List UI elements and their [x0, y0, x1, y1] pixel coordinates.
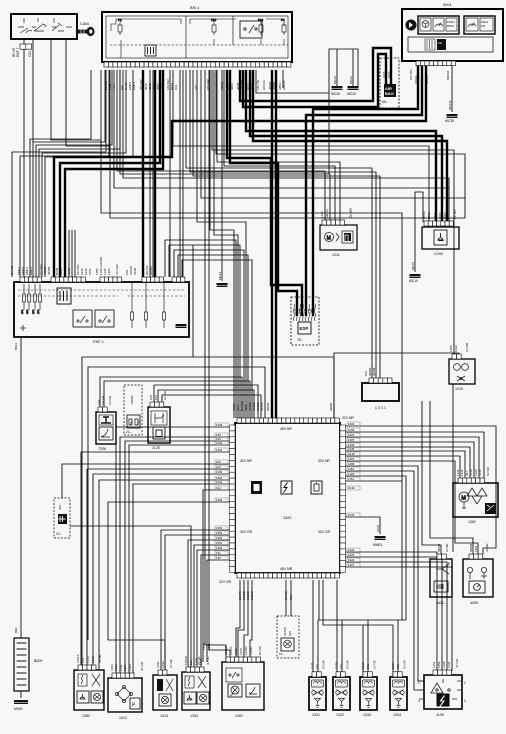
svg-text:4005: 4005 — [470, 601, 478, 605]
svg-text:1262: 1262 — [468, 520, 476, 524]
wire 1215 return vertical — [452, 384, 454, 552]
wire ECU right 1257 to 4005 — [340, 461, 478, 554]
wire 1120 to ECU c — [162, 395, 261, 418]
svg-text:30050: 30050 — [329, 402, 333, 411]
svg-text:21--: 21-- — [126, 430, 132, 434]
svg-text:312B: 312B — [133, 268, 137, 275]
svg-text:1229: 1229 — [216, 423, 223, 427]
wire BSI to PSF1 thick elbow 2 — [65, 70, 163, 278]
svg-text:124: 124 — [216, 465, 221, 469]
wire ECU bottom to 1261 a — [236, 580, 240, 662]
wire ECU bottom to 15A68 a — [285, 580, 287, 616]
svg-text:2V NE: 2V NE — [169, 659, 173, 668]
svg-text:3014: 3014 — [250, 83, 254, 90]
svg-text:65--: 65-- — [382, 100, 388, 104]
injector 1332 — [333, 677, 350, 710]
instrument cluster 0004 box — [402, 9, 503, 61]
svg-text:EMF4: EMF4 — [132, 82, 136, 90]
wire BSI to CV00 thick 1 — [246, 70, 436, 222]
wire 7306 to ECU a — [100, 377, 242, 418]
svg-text:1353: 1353 — [190, 714, 198, 718]
cluster lower module — [408, 37, 493, 52]
wire BSI staircase to PSF1 d — [42, 70, 126, 277]
wire ECU right H129 — [340, 456, 460, 482]
wire BSI pin down x197 — [197, 70, 246, 418]
svg-text:151: 151 — [315, 664, 319, 669]
wire CV00 to MC10 ground — [415, 192, 423, 272]
svg-text:MC311: MC311 — [448, 100, 452, 110]
svg-text:2V NR: 2V NR — [346, 659, 350, 669]
svg-text:1355: 1355 — [216, 531, 223, 535]
svg-text:6V NR: 6V NR — [486, 466, 490, 476]
wire BSI to fuel gauge 1211 b — [120, 70, 330, 220]
svg-text:1351A: 1351A — [76, 654, 80, 663]
svg-text:1212: 1212 — [334, 662, 338, 669]
wire MC30 drop — [336, 49, 338, 86]
svg-text:1313: 1313 — [160, 714, 168, 718]
svg-text:48V NR: 48V NR — [280, 427, 292, 431]
svg-text:4621: 4621 — [436, 601, 444, 605]
svg-text:2: 2 — [464, 681, 466, 685]
svg-text:1204: 1204 — [216, 448, 223, 452]
wire ECU left 1354 — [188, 540, 233, 672]
svg-text:1316C: 1316C — [244, 645, 248, 655]
svg-text:1120: 1120 — [152, 446, 160, 450]
low speed resistor 15A68 — [277, 616, 299, 658]
svg-text:30060: 30060 — [274, 402, 278, 411]
pressure switch 4005 — [463, 559, 493, 597]
PSF1 battery stud — [20, 325, 26, 331]
wire BSI left long b — [20, 70, 109, 277]
svg-text:10--: 10-- — [56, 532, 62, 536]
wire ECU bottom to 1261 d — [250, 580, 252, 662]
sensor 1313 — [153, 675, 177, 710]
wire battery positive B013 — [20, 338, 22, 638]
svg-text:133: 133 — [154, 395, 158, 400]
svg-text:CV00: CV00 — [434, 252, 443, 256]
ground MC10 — [410, 274, 421, 276]
ECU icon injection — [311, 481, 322, 494]
relay in BSI — [240, 21, 262, 38]
brake switch 7306 — [96, 412, 116, 444]
svg-text:F4: F4 — [281, 18, 285, 22]
svg-text:1315: 1315 — [469, 469, 473, 476]
svg-text:MC13: MC13 — [218, 272, 222, 280]
svg-text:135: 135 — [149, 395, 153, 400]
svg-text:B02: B02 — [14, 627, 18, 633]
wire BSI to PSF1 thick 2 — [154, 70, 156, 277]
ground MM01 — [375, 536, 386, 538]
svg-text:1332: 1332 — [336, 713, 344, 717]
svg-text:1316: 1316 — [478, 469, 482, 476]
svg-text:15A68: 15A68 — [283, 627, 287, 636]
wire BSI staircase to PSF1 a — [33, 70, 105, 142]
svg-text:1361: 1361 — [156, 661, 160, 668]
wire BSI pin down x209 long — [209, 70, 230, 662]
wire thin into PSF1 x72 — [71, 230, 73, 278]
wire BSI to CV00 thin — [173, 70, 429, 222]
wire fan PSF1 to ECU b — [169, 245, 240, 418]
svg-text:1354: 1354 — [216, 536, 223, 540]
svg-text:ESP: ESP — [300, 326, 309, 331]
svg-text:7306: 7306 — [98, 447, 106, 451]
svg-text:15A68: 15A68 — [284, 591, 288, 600]
svg-text:1333: 1333 — [363, 713, 371, 717]
svg-text:BAG: BAG — [385, 91, 394, 96]
wire BSI to C001 b — [190, 70, 376, 378]
wire ECU right 1152 to 1135 pin4 — [340, 471, 424, 690]
wire BSI to 1211 c — [224, 70, 335, 220]
svg-text:32V NR: 32V NR — [240, 459, 252, 463]
wire fan PSF1 to ECU e — [182, 260, 252, 418]
svg-text:PSF 1: PSF 1 — [93, 340, 104, 344]
cluster connector strip — [416, 61, 420, 66]
PSF1 fuses MF — [22, 284, 26, 314]
svg-text:BV NR: BV NR — [10, 265, 14, 275]
svg-text:151: 151 — [339, 664, 343, 669]
wire vertical x193 — [192, 245, 194, 357]
svg-text:MC32: MC32 — [347, 92, 356, 96]
ignition connector — [20, 44, 26, 49]
ground M000 — [14, 700, 28, 702]
svg-text:3004A: 3004A — [414, 75, 418, 84]
wire fan PSF1 to ECU a — [165, 240, 236, 418]
svg-text:8V NR: 8V NR — [258, 645, 262, 655]
svg-text:2V NR: 2V NR — [163, 390, 167, 400]
svg-text:1134: 1134 — [460, 469, 464, 476]
svg-text:1351: 1351 — [474, 545, 478, 552]
svg-text:F10: F10 — [211, 18, 217, 22]
svg-text:1351: 1351 — [216, 541, 223, 545]
clutch switch 10 — [54, 498, 70, 538]
svg-text:KM: KM — [481, 24, 486, 28]
svg-text:1311: 1311 — [207, 643, 211, 650]
wire BSI to C001 a — [186, 70, 372, 378]
wire ECU right 1232 to MM01 — [340, 517, 380, 534]
wire BSI to airbag thick 2 — [243, 54, 386, 107]
svg-text:1363: 1363 — [114, 664, 118, 671]
idle actuator 1215 — [449, 359, 475, 384]
svg-text:CH13F: CH13F — [101, 395, 105, 405]
svg-text:121B: 121B — [202, 643, 206, 650]
wire BSI long horizontal to CV00 — [114, 70, 449, 188]
switch 6302C — [124, 385, 142, 435]
svg-text:32V GR: 32V GR — [219, 580, 232, 584]
wire cluster to MC35 ground — [451, 64, 453, 112]
wire MC30 loop left continuation — [328, 93, 330, 174]
svg-text:48V MR: 48V MR — [280, 567, 293, 571]
svg-text:3008: 3008 — [160, 83, 164, 90]
wire BSI pin to junction x110 — [110, 70, 465, 218]
wire BSI right fan b — [216, 70, 465, 218]
svg-text:30060: 30060 — [272, 81, 276, 90]
svg-text:EMF 7: EMF 7 — [16, 47, 20, 57]
wire battery to ground M000 — [20, 691, 22, 698]
svg-text:2V VE: 2V VE — [197, 656, 201, 665]
wire BSI to ESP thick hook 2 — [230, 70, 297, 316]
fuse F10 in BSI — [211, 18, 217, 35]
svg-text:XC1: XC1 — [194, 84, 198, 90]
wire ECU right 1215 — [340, 437, 479, 482]
svg-text:1: 1 — [418, 681, 420, 685]
svg-text:1151: 1151 — [348, 477, 354, 481]
svg-text:MC10: MC10 — [409, 279, 418, 283]
wire BP27 BSI to PSF1 thick 1 — [142, 70, 144, 277]
svg-text:1320: 1320 — [283, 516, 291, 520]
wire ECU left 1241 — [133, 484, 233, 678]
svg-text:M0004: M0004 — [446, 70, 450, 80]
wire ECU right 1365 to 1135 pin1 — [340, 466, 424, 681]
ground MC32 — [348, 86, 359, 88]
svg-text:18V VE: 18V VE — [256, 80, 260, 90]
svg-text:1226: 1226 — [216, 498, 223, 502]
svg-text:B102: B102 — [427, 212, 431, 219]
svg-text:1321: 1321 — [348, 563, 355, 567]
wire ECU left 130 — [207, 560, 233, 662]
svg-text:HO5A: HO5A — [422, 211, 426, 219]
svg-text:106: 106 — [216, 460, 221, 464]
svg-text:0004: 0004 — [443, 3, 451, 7]
wire BSI pin down x214 — [214, 70, 238, 418]
ECU left connector — [230, 425, 236, 431]
wire BSI left long a — [12, 70, 106, 277]
svg-text:RPM: RPM — [447, 24, 454, 28]
injection relay 4621 — [430, 559, 452, 597]
svg-text:1215: 1215 — [455, 387, 463, 391]
wire ECU left 1362 — [197, 550, 233, 672]
svg-text:1203: 1203 — [107, 268, 111, 275]
svg-text:KM: KM — [438, 41, 442, 45]
throttle potentiometer 1120 — [148, 407, 170, 443]
wire ECU left 1226 — [108, 502, 233, 675]
injector 1334 — [390, 677, 407, 710]
svg-text:BSI 1: BSI 1 — [190, 6, 199, 10]
ignition coil unit 1135 — [424, 675, 462, 709]
wire ignition pin3 to BSI link — [51, 39, 101, 140]
svg-text:2V GR: 2V GR — [108, 395, 112, 405]
ECU bottom connector — [237, 573, 241, 578]
ignition switch CA00 box — [11, 14, 77, 39]
injector 1333 — [360, 677, 377, 710]
wire cluster elbow left thick — [54, 64, 426, 278]
wire 30050 bundle m1 — [82, 357, 334, 670]
BSI1 box — [102, 12, 292, 62]
svg-text:131: 131 — [216, 551, 221, 555]
wire 1120 to ECU a — [154, 385, 258, 418]
svg-text:1216: 1216 — [348, 422, 355, 426]
connector icon in BSI — [145, 45, 156, 56]
ECU right connector — [340, 425, 346, 431]
svg-text:1322: 1322 — [348, 558, 355, 562]
svg-text:EMF4: EMF4 — [29, 267, 33, 275]
svg-text:1362: 1362 — [216, 546, 223, 550]
svg-text:F8: F8 — [118, 18, 122, 22]
svg-text:MC30: MC30 — [331, 92, 340, 96]
svg-text:MC32: MC32 — [349, 76, 353, 84]
svg-text:1331: 1331 — [312, 713, 320, 717]
svg-text:30068: 30068 — [372, 367, 376, 376]
svg-text:MC15: MC15 — [411, 262, 415, 270]
svg-text:1361: 1361 — [123, 664, 127, 671]
svg-text:16V GR: 16V GR — [115, 263, 119, 275]
svg-text:1241: 1241 — [216, 480, 223, 484]
svg-text:HB03A: HB03A — [282, 80, 286, 90]
ground MC13 — [217, 283, 228, 285]
wire C001 to 4621 — [422, 401, 441, 554]
injector 1331 — [309, 677, 326, 710]
svg-text:+VA: +VA — [112, 84, 116, 90]
svg-text:1213: 1213 — [361, 662, 365, 669]
svg-text:K73B: K73B — [67, 268, 71, 275]
svg-text:78--: 78-- — [297, 338, 303, 342]
wire BSI to MC30 loop — [256, 49, 358, 93]
wire BSI to CV00 thick 2 — [250, 70, 442, 222]
wire ECU left 1303 — [93, 474, 233, 670]
wire ECU left 136 — [120, 437, 233, 678]
wire fan PSF1 to ECU c — [174, 250, 244, 418]
svg-text:1261: 1261 — [235, 714, 243, 718]
wire 1120 to ECU b — [158, 390, 254, 418]
svg-text:151: 151 — [288, 631, 292, 636]
wire ECU bottom to 15A68 b — [290, 580, 292, 616]
wire ECU left 1355 — [165, 535, 233, 675]
wire cluster to ESP thick 2 — [306, 64, 422, 316]
BSI bottom connector strip — [104, 62, 108, 67]
wire injector distribution rail 2 — [323, 624, 393, 626]
wire 1211 pins down — [335, 224, 337, 226]
svg-text:1235: 1235 — [320, 211, 324, 218]
svg-text:4V BE: 4V BE — [98, 654, 102, 663]
wire ECU left 1204 — [81, 452, 233, 670]
svg-text:1215: 1215 — [348, 433, 355, 437]
svg-text:1136: 1136 — [299, 308, 302, 314]
svg-text:1151: 1151 — [432, 661, 436, 668]
svg-text:1232: 1232 — [348, 513, 355, 517]
wire ECU right 1220 — [340, 432, 484, 482]
wire BSI to 1211 d — [217, 70, 340, 220]
wire ECU left 1353 — [161, 530, 233, 675]
fuse F4 in BSI — [281, 18, 286, 35]
svg-text:1257: 1257 — [348, 457, 355, 461]
wire ECU left 1302 — [99, 480, 233, 670]
PSF1 fuse box — [14, 282, 189, 337]
svg-text:6V GR: 6V GR — [453, 209, 457, 219]
wire 30060 BSI to ECU 1320 thick 2 — [275, 70, 277, 418]
svg-text:4: 4 — [418, 699, 420, 703]
airbag module 65 — [380, 58, 399, 108]
svg-text:4V GR: 4V GR — [455, 658, 459, 668]
svg-text:32V GR: 32V GR — [240, 530, 253, 534]
PSF1 fuses right — [131, 283, 134, 328]
svg-text:1318: 1318 — [234, 648, 238, 655]
ECU top connector — [237, 418, 241, 423]
svg-text:1352: 1352 — [82, 714, 90, 718]
svg-text:1051: 1051 — [88, 268, 92, 275]
wire ECU left 131 — [201, 555, 233, 672]
wire ECU right 1321 — [340, 567, 452, 671]
wire ignition pin4 to BSI link — [66, 39, 110, 146]
wire BSI right to ECU thin — [282, 70, 284, 88]
svg-text:MM01: MM01 — [373, 543, 383, 547]
svg-text:1306C: 1306C — [250, 590, 254, 600]
wire thin into PSF1 x75 — [74, 230, 76, 278]
throttle housing 1262 — [453, 483, 498, 517]
svg-text:MC30: MC30 — [333, 76, 337, 84]
wire injector drops — [317, 620, 319, 677]
wire ECU left 1203 — [129, 445, 233, 678]
svg-text:6V MR: 6V MR — [349, 208, 353, 218]
svg-text:1152: 1152 — [437, 661, 441, 668]
svg-text:H231: H231 — [376, 524, 380, 532]
svg-text:32V NR: 32V NR — [318, 459, 330, 463]
wire BSI right fan a — [212, 70, 454, 356]
engine ECU 1320 — [235, 423, 340, 573]
wire injector distribution rail 1 — [318, 619, 406, 621]
wire BSI straight thin set — [149, 70, 151, 277]
svg-text:1319: 1319 — [239, 648, 243, 655]
svg-text:1152: 1152 — [348, 467, 354, 471]
wire BSI staircase to PSF1 b — [36, 70, 112, 277]
wire 2V NR ignition pin1 to PSF1 — [23, 39, 25, 277]
wire BSI to ESP thick hook 1 — [227, 70, 302, 316]
wire BSI mid straight thin — [169, 70, 171, 277]
wire BSI to 1215 long — [123, 70, 449, 222]
wire ECU right 1324 — [340, 552, 437, 671]
svg-text:1335: 1335 — [348, 447, 355, 451]
svg-text:30305: 30305 — [47, 266, 51, 275]
svg-text:1362: 1362 — [91, 656, 95, 663]
svg-text:1324: 1324 — [348, 548, 355, 552]
wire MC32 drop — [352, 49, 354, 86]
wire ignition pin2 to PSF1 — [32, 39, 34, 277]
svg-text:MC35: MC35 — [445, 119, 454, 123]
wire ECU left 122 — [203, 490, 233, 662]
wire 7306 to ECU b — [104, 381, 250, 418]
wire BSI to fuel gauge 1211 a — [117, 70, 325, 220]
svg-text:M: M — [461, 496, 466, 502]
svg-text:2V MR: 2V MR — [465, 342, 469, 352]
fuse F8 in BSI — [118, 18, 122, 35]
svg-text:B000: B000 — [34, 659, 42, 663]
svg-text:1134: 1134 — [447, 661, 451, 668]
wire ECU 30050 to 1215 pin2 — [334, 353, 459, 418]
ESP unit 78 — [291, 297, 319, 345]
battery B000 — [14, 638, 29, 691]
svg-text:H132: H132 — [348, 486, 355, 490]
horn CV00 — [422, 227, 459, 249]
ground MC35 — [447, 114, 458, 116]
wire BSI to C001 c — [193, 70, 380, 378]
svg-text:H065A: H065A — [149, 266, 153, 275]
svg-text:M: M — [327, 236, 331, 242]
wire BSI to CV00 thick 3 — [253, 70, 447, 222]
svg-text:30060: 30060 — [266, 402, 270, 411]
PSF1 center connector — [57, 288, 71, 304]
svg-text:CA00: CA00 — [80, 22, 89, 26]
svg-text:30068: 30068 — [437, 543, 441, 552]
wire switch 10 output — [70, 526, 191, 672]
svg-text:S1651-: S1651- — [260, 401, 264, 411]
svg-text:1351B: 1351B — [184, 656, 188, 665]
wire fan PSF1 to ECU d — [178, 255, 248, 418]
cluster warning lamp icon — [406, 20, 417, 31]
wire BSI pin down x201 — [201, 70, 465, 198]
wire staircase f — [30, 70, 91, 277]
PSF1 top connector strips — [20, 277, 24, 282]
svg-text:32V NR: 32V NR — [342, 416, 354, 420]
svg-text:1211: 1211 — [332, 253, 340, 257]
svg-text:1334: 1334 — [393, 713, 401, 717]
